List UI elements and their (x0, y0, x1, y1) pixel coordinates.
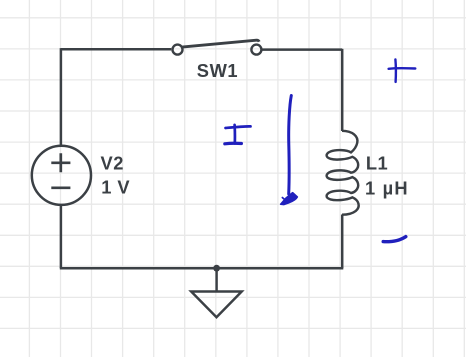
svg-text:V2: V2 (101, 153, 124, 174)
annotation: blue capacitor mark (225, 125, 251, 144)
inductor L1 (327, 131, 359, 215)
annotation: blue current arrow (289, 96, 292, 195)
wire top-right segment (262, 48, 342, 51)
wire left lower (60, 205, 63, 268)
junction node dot (213, 265, 220, 272)
annotation: blue arrowhead (281, 193, 298, 205)
wire bottom (60, 267, 344, 270)
annotation: blue plus sign (389, 59, 416, 82)
wire right upper (341, 49, 344, 131)
wire right lower (341, 215, 344, 269)
wire top-left segment (61, 48, 171, 51)
svg-text:1 V: 1 V (101, 177, 130, 198)
ground symbol (191, 292, 242, 318)
svg-text:L1: L1 (366, 153, 388, 174)
switch SW1 (173, 40, 262, 54)
annotation: blue dash (383, 237, 406, 242)
svg-text:1 µH: 1 µH (365, 177, 409, 198)
voltage source V2 (32, 146, 91, 205)
wire left upper (60, 48, 63, 146)
ground stub wire (215, 268, 217, 291)
svg-text:SW1: SW1 (197, 60, 238, 81)
